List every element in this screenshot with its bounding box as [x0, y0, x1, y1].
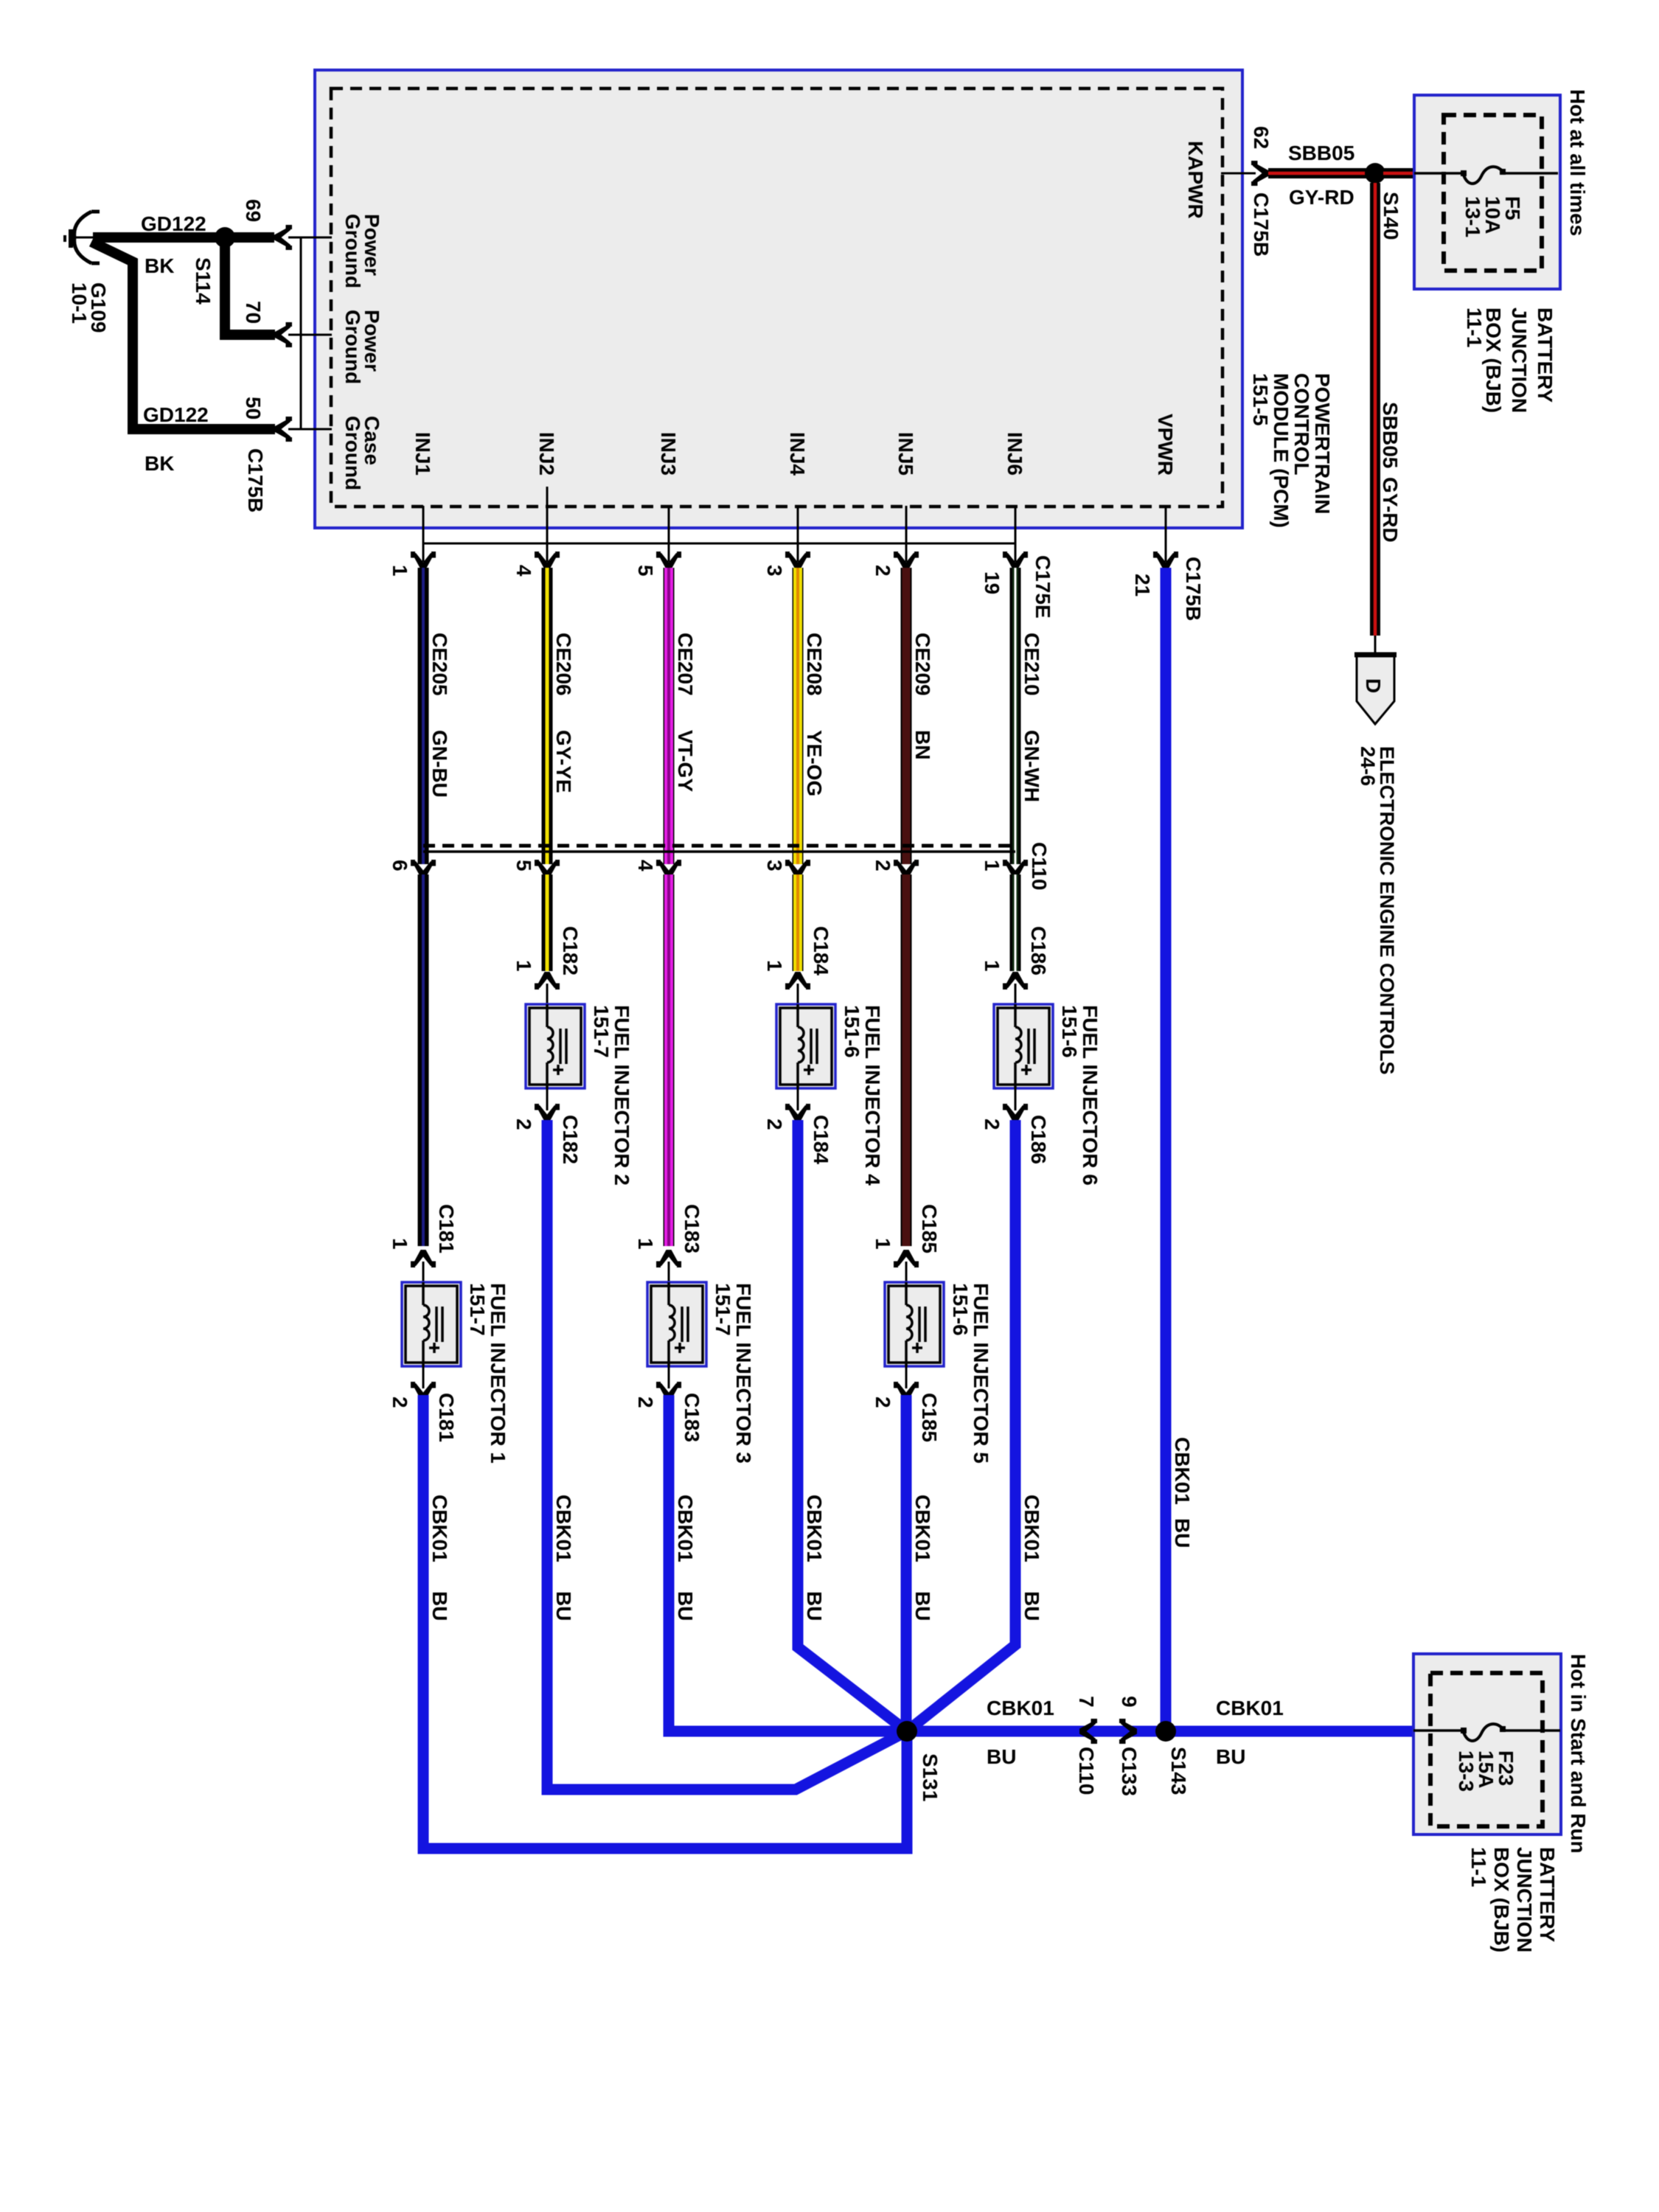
- pin 70 lead: [288, 334, 332, 336]
- label C185 (pin 2): [918, 1393, 941, 1442]
- label SBB05 (vertical): [1379, 402, 1402, 468]
- svg-text:Ground: Ground: [341, 214, 364, 288]
- label CBK01 (wire x=1229): [911, 1495, 934, 1562]
- fuel injector 2 (FUEL INJECTOR 2): [526, 984, 585, 1110]
- svg-text:C175B: C175B: [244, 448, 267, 512]
- INJ4 pin 3 arrow: [785, 552, 810, 569]
- svg-text:1: 1: [634, 1238, 657, 1250]
- svg-text:S131: S131: [919, 1753, 942, 1801]
- INJ3 pin 5 label: [634, 565, 657, 577]
- svg-text:BU: BU: [552, 1591, 575, 1621]
- connector C182 pin 1 arrow: [535, 972, 560, 990]
- svg-text:11-1: 11-1: [1463, 307, 1486, 348]
- fuse F23 15A: [1413, 1724, 1560, 1741]
- wire CE208 YE-OG lower segment: [793, 874, 804, 971]
- label CBK01 (wire x=1082): [803, 1495, 826, 1562]
- svg-text:2: 2: [872, 565, 894, 577]
- label S131: [919, 1753, 942, 1801]
- label GD122 (upper): [141, 212, 206, 235]
- INJ1 pin 1 arrow: [411, 552, 436, 569]
- INJ5 pin lead: [905, 506, 908, 562]
- label C182 (pin 1): [559, 926, 582, 975]
- svg-text:D: D: [1362, 678, 1385, 693]
- svg-text:69: 69: [242, 199, 265, 222]
- svg-text:1: 1: [981, 860, 1004, 872]
- label CE208: [803, 633, 826, 696]
- INJ2 pin lead: [546, 487, 549, 562]
- lead to off-page connector D: [1374, 636, 1377, 655]
- PCM label POWERTRAIN CONTROL MODULE (PCM) 151-5: [1249, 373, 1334, 528]
- svg-text:4: 4: [512, 565, 535, 577]
- VPWR pin lead: [1165, 506, 1167, 562]
- INJ5 pin 2 label: [872, 565, 894, 577]
- C183 pin 2 label: [634, 1397, 657, 1408]
- svg-text:13-1: 13-1: [1461, 196, 1484, 237]
- PCM pin label Case Ground (50): [341, 416, 383, 490]
- svg-text:BU: BU: [1216, 1745, 1245, 1768]
- pin 50 label: [242, 397, 265, 420]
- svg-text:CBK01: CBK01: [552, 1495, 575, 1562]
- pin 70 label: [242, 301, 265, 324]
- C185 pin 1 label: [872, 1238, 894, 1250]
- svg-text:VT-GY: VT-GY: [674, 730, 697, 792]
- svg-text:CBK01: CBK01: [1216, 1697, 1284, 1719]
- INJ6 pin 19 label: [981, 571, 1004, 594]
- svg-text:2: 2: [763, 1119, 786, 1130]
- svg-text:62: 62: [1250, 126, 1273, 149]
- svg-text:INJ1: INJ1: [411, 432, 434, 476]
- svg-text:INJ5: INJ5: [894, 432, 917, 476]
- pin 69 label: [242, 199, 265, 222]
- wire CBK01 BU from fuel injector 4 (C184-2) to splice S131: [798, 1120, 907, 1731]
- label CBK01 (wire x=742): [552, 1495, 575, 1562]
- svg-text:INJ4: INJ4: [786, 432, 809, 476]
- label C184 (pin 1): [810, 926, 832, 975]
- svg-text:C184: C184: [810, 926, 832, 975]
- svg-text:CE208: CE208: [803, 633, 826, 696]
- label CBK01 (S131-C110 segment): [987, 1697, 1054, 1719]
- svg-text:BOX (BJB): BOX (BJB): [1490, 1847, 1513, 1952]
- PCM pin label INJ4: [786, 432, 809, 476]
- label FUEL INJECTOR 4 151-6: [841, 1005, 884, 1186]
- C110 pin 5 label: [512, 860, 535, 872]
- connector line C110: [423, 850, 1015, 853]
- svg-text:5: 5: [634, 565, 657, 577]
- wire CE206 GY-YE lower segment: [542, 874, 553, 971]
- svg-text:C181: C181: [435, 1393, 458, 1442]
- svg-text:151-6: 151-6: [949, 1283, 972, 1336]
- svg-text:CBK01: CBK01: [674, 1495, 697, 1562]
- connector C183 pin 1 arrow: [656, 1250, 681, 1267]
- label BATTERY JUNCTION BOX (BJB) 11-1 (bottom): [1467, 1847, 1559, 1952]
- fuel injector 6 (FUEL INJECTOR 6): [994, 984, 1053, 1110]
- splice S131: [897, 1721, 917, 1742]
- INJ6 pin 19 arrow: [1003, 552, 1028, 569]
- svg-text:70: 70: [242, 301, 265, 324]
- label SBB05 (horizontal): [1288, 142, 1354, 164]
- PCM pin label Power Ground (69): [341, 214, 383, 288]
- label Hot in Start and Run: [1567, 1654, 1590, 1854]
- PCM pin label INJ1: [411, 432, 434, 476]
- connector C182 pin 2 arrow: [535, 1104, 560, 1121]
- svg-text:INJ6: INJ6: [1004, 432, 1026, 476]
- label CE206: [552, 633, 575, 696]
- label BU (S143-BJB segment): [1216, 1745, 1245, 1768]
- wire SBB05 GY-RD horizontal: [1268, 168, 1367, 178]
- connector C185 pin 1 arrow: [894, 1250, 919, 1267]
- ground label G109 10-1: [68, 282, 110, 333]
- pin 62 label: [1250, 126, 1273, 149]
- svg-text:5: 5: [512, 860, 535, 872]
- C110 pin 5 arrow (INJ2): [535, 860, 560, 877]
- harness boundary dashed line at C110: [423, 844, 1015, 848]
- INJ3 pin lead: [668, 506, 670, 562]
- svg-text:CBK01: CBK01: [987, 1697, 1054, 1719]
- svg-text:21: 21: [1131, 574, 1154, 597]
- C110 pin 2 label: [872, 860, 894, 872]
- svg-text:BATTERY: BATTERY: [1536, 1847, 1559, 1942]
- label C133: [1118, 1747, 1141, 1796]
- label BU (wire x=574): [428, 1591, 451, 1621]
- battery junction box 1 (hot at all times): [1414, 95, 1560, 289]
- svg-text:GY-RD: GY-RD: [1379, 477, 1402, 543]
- svg-text:BU: BU: [987, 1745, 1016, 1768]
- C110 pin 2 arrow (INJ5): [894, 860, 919, 877]
- label C186 (pin 1): [1027, 926, 1050, 975]
- svg-text:Hot in Start and Run: Hot in Start and Run: [1567, 1654, 1590, 1854]
- label C183 (pin 1): [681, 1204, 703, 1253]
- connector C184 pin 1 arrow: [785, 972, 810, 990]
- wire CE210 GN-WH lower segment: [1010, 874, 1021, 971]
- svg-text:2: 2: [872, 1397, 894, 1408]
- fuse F5 label: [1461, 196, 1524, 237]
- label C110 (bottom): [1075, 1747, 1098, 1795]
- PCM pin label VPWR: [1154, 414, 1177, 476]
- connector C184 pin 2 arrow: [785, 1104, 810, 1121]
- label GY-YE: [552, 730, 575, 793]
- label BU (wire x=1377): [1020, 1591, 1043, 1621]
- wire CBK01 BU from fuel injector 1 (C181-2) to splice S131: [423, 1395, 907, 1848]
- svg-text:BU: BU: [911, 1591, 934, 1621]
- wire CBK01 BU VPWR to splice S143: [1161, 568, 1172, 1731]
- label Hot at all times: [1566, 89, 1589, 236]
- C186 pin 2 label: [981, 1119, 1004, 1130]
- fuel injector 1 (FUEL INJECTOR 1): [402, 1262, 461, 1388]
- svg-text:BU: BU: [674, 1591, 697, 1621]
- svg-text:C181: C181: [435, 1204, 458, 1253]
- C181 pin 1 label: [389, 1238, 411, 1250]
- C182 pin 2 label: [512, 1119, 535, 1130]
- svg-text:CONTROL: CONTROL: [1290, 373, 1313, 475]
- svg-text:GN-WH: GN-WH: [1020, 730, 1043, 802]
- svg-text:GD122: GD122: [141, 212, 206, 235]
- pin 69 lead: [288, 237, 332, 239]
- PCM pin label INJ5: [894, 432, 917, 476]
- svg-text:C175B: C175B: [1250, 192, 1273, 257]
- wire CE207 VT-GY upper segment: [664, 568, 675, 864]
- off-page connector D: [1354, 654, 1397, 724]
- fuse F23 label: [1455, 1750, 1517, 1792]
- svg-text:BU: BU: [1171, 1518, 1194, 1548]
- connector C181 pin 2 arrow: [411, 1382, 436, 1399]
- INJ6 pin lead: [1015, 506, 1017, 562]
- svg-text:JUNCTION: JUNCTION: [1508, 307, 1531, 413]
- label FUEL INJECTOR 3 151-7: [712, 1283, 755, 1464]
- svg-text:1: 1: [763, 960, 786, 972]
- INJ4 pin lead: [797, 506, 799, 562]
- splice S140: [1365, 163, 1385, 184]
- C110 pin 7 label: [1075, 1696, 1098, 1708]
- label BU (S131-C110 segment): [987, 1745, 1016, 1768]
- svg-text:CBK01: CBK01: [911, 1495, 934, 1562]
- wire CE206 GY-YE upper segment: [542, 568, 553, 864]
- C110 pin 1 arrow (INJ6): [1003, 860, 1028, 877]
- fuel injector 4 (FUEL INJECTOR 4): [776, 984, 835, 1110]
- svg-text:S140: S140: [1380, 192, 1402, 240]
- svg-text:13-3: 13-3: [1455, 1750, 1478, 1792]
- label BATTERY JUNCTION BOX (BJB) 11-1 (top): [1463, 307, 1557, 413]
- svg-text:2: 2: [872, 860, 894, 872]
- svg-text:C110: C110: [1028, 842, 1051, 890]
- wire splice S114 to pin 70: [225, 237, 275, 335]
- INJ1 pin 1 label: [389, 565, 411, 577]
- label CBK01 (S143-BJB segment): [1216, 1697, 1284, 1719]
- svg-text:JUNCTION: JUNCTION: [1513, 1847, 1536, 1952]
- label CBK01 (wire x=907): [674, 1495, 697, 1562]
- svg-text:4: 4: [634, 860, 657, 872]
- svg-text:C183: C183: [681, 1393, 703, 1442]
- label GY-RD (horizontal): [1289, 186, 1354, 209]
- svg-text:SBB05: SBB05: [1288, 142, 1354, 164]
- KAPWR pin 62 arrow: [1251, 161, 1269, 186]
- svg-text:YE-OG: YE-OG: [803, 730, 826, 796]
- svg-text:151-7: 151-7: [590, 1005, 613, 1058]
- svg-text:BU: BU: [803, 1591, 826, 1621]
- fuel injector 5 (FUEL INJECTOR 5): [885, 1262, 944, 1388]
- svg-text:2: 2: [512, 1119, 535, 1130]
- svg-text:6: 6: [389, 860, 411, 872]
- label FUEL INJECTOR 1 151-7: [466, 1283, 509, 1464]
- INJ2 pin 4 label: [512, 565, 535, 577]
- label FUEL INJECTOR 2 151-7: [590, 1005, 633, 1186]
- connector line C175E: [423, 543, 1015, 545]
- label GN-BU: [428, 730, 451, 798]
- wire GD122 BK ground to splice S114: [93, 232, 274, 243]
- PCM pin label INJ2: [535, 432, 558, 476]
- label FUEL INJECTOR 5 151-6: [949, 1283, 992, 1464]
- svg-text:24-6: 24-6: [1357, 746, 1379, 786]
- svg-text:BU: BU: [428, 1591, 451, 1621]
- label GY-RD (vertical): [1379, 477, 1402, 543]
- label CBK01 (wire x=574): [428, 1495, 451, 1562]
- svg-text:C183: C183: [681, 1204, 703, 1253]
- label BN: [911, 730, 934, 759]
- svg-text:10-1: 10-1: [68, 282, 91, 324]
- svg-text:151-6: 151-6: [1058, 1005, 1081, 1058]
- svg-text:CBK01: CBK01: [1020, 1495, 1043, 1562]
- svg-text:KAPWR: KAPWR: [1184, 141, 1207, 219]
- svg-text:BN: BN: [911, 730, 934, 759]
- label BU (wire x=907): [674, 1591, 697, 1621]
- svg-text:Ground: Ground: [341, 310, 364, 384]
- wire S140 to battery junction box: [1383, 168, 1414, 178]
- svg-text:11-1: 11-1: [1467, 1847, 1490, 1888]
- svg-text:BATTERY: BATTERY: [1534, 307, 1557, 403]
- C186 pin 1 label: [981, 960, 1004, 972]
- svg-text:C182: C182: [559, 926, 582, 975]
- label BU (wire x=742): [552, 1591, 575, 1621]
- svg-text:1: 1: [512, 960, 535, 972]
- svg-text:BK: BK: [145, 254, 174, 277]
- C110 pin 6 arrow (INJ1): [411, 860, 436, 877]
- C110 pin 7 arrow (bottom): [1079, 1719, 1097, 1744]
- connector C185 pin 2 arrow: [894, 1382, 919, 1399]
- C133 pin 9 arrow: [1119, 1719, 1137, 1744]
- svg-text:CBK01: CBK01: [1171, 1437, 1194, 1505]
- PCM pin label INJ3: [657, 432, 680, 476]
- C133 pin 9 label: [1118, 1696, 1141, 1708]
- label S140: [1380, 192, 1402, 240]
- pin 50 lead: [288, 428, 332, 431]
- label ELECTRONIC ENGINE CONTROLS 24-6: [1357, 746, 1398, 1075]
- label C175E: [1032, 555, 1054, 619]
- svg-text:FUEL INJECTOR 2: FUEL INJECTOR 2: [611, 1005, 633, 1186]
- pin 70 arrow: [274, 322, 292, 347]
- svg-text:MODULE (PCM): MODULE (PCM): [1270, 373, 1293, 528]
- splice S114: [215, 227, 235, 248]
- label CE207: [674, 633, 697, 696]
- label VT-GY: [674, 730, 697, 792]
- svg-text:C133: C133: [1118, 1747, 1141, 1796]
- label CE209: [911, 633, 934, 696]
- wire CBK01 BU from fuel injector 3 (C183-2) to splice S131: [669, 1395, 907, 1731]
- label C182 (pin 2): [559, 1115, 582, 1164]
- svg-text:GN-BU: GN-BU: [428, 730, 451, 798]
- svg-text:FUEL INJECTOR 6: FUEL INJECTOR 6: [1079, 1005, 1102, 1186]
- label CBK01 (VPWR wire): [1171, 1437, 1194, 1505]
- connector C183 pin 2 arrow: [656, 1382, 681, 1399]
- label C181 (pin 2): [435, 1393, 458, 1442]
- wire CE205 GN-BU lower segment: [418, 874, 429, 1246]
- svg-text:S114: S114: [192, 257, 215, 305]
- label BK (lower): [145, 452, 174, 475]
- svg-text:GY-RD: GY-RD: [1289, 186, 1354, 209]
- pin 69 arrow: [274, 225, 292, 250]
- INJ4 pin 3 label: [763, 565, 786, 577]
- svg-text:50: 50: [242, 397, 265, 420]
- svg-text:2: 2: [634, 1397, 657, 1408]
- svg-text:INJ2: INJ2: [535, 432, 558, 476]
- svg-text:C185: C185: [918, 1393, 941, 1442]
- svg-text:CE207: CE207: [674, 633, 697, 696]
- svg-text:1: 1: [981, 960, 1004, 972]
- svg-text:C185: C185: [918, 1204, 941, 1253]
- svg-text:FUEL INJECTOR 5: FUEL INJECTOR 5: [970, 1283, 992, 1464]
- svg-text:SBB05: SBB05: [1379, 402, 1402, 468]
- label C185 (pin 1): [918, 1204, 941, 1253]
- label FUEL INJECTOR 6 151-6: [1058, 1005, 1102, 1186]
- svg-text:151-6: 151-6: [841, 1005, 863, 1058]
- wire CBK01 BU from fuel injector 2 (C182-2) to splice S131: [547, 1120, 907, 1790]
- INJ3 pin 5 arrow: [656, 552, 681, 569]
- svg-text:1: 1: [872, 1238, 894, 1250]
- label CE205: [428, 633, 451, 696]
- svg-text:S143: S143: [1167, 1747, 1190, 1795]
- svg-text:151-5: 151-5: [1249, 373, 1272, 426]
- svg-text:2: 2: [981, 1119, 1004, 1130]
- C184 pin 2 label: [763, 1119, 786, 1130]
- svg-text:C175E: C175E: [1032, 555, 1054, 619]
- connector line C175B (grounds): [300, 237, 302, 429]
- svg-text:Ground: Ground: [341, 416, 364, 490]
- label C110: [1028, 842, 1051, 890]
- svg-text:19: 19: [981, 571, 1004, 594]
- svg-text:FUEL INJECTOR 4: FUEL INJECTOR 4: [861, 1005, 884, 1186]
- label GN-WH: [1020, 730, 1043, 802]
- wire GD122 BK ground to pin 50 (case ground): [91, 242, 275, 429]
- label C183 (pin 2): [681, 1393, 703, 1442]
- wire CE209 BN lower segment: [901, 874, 912, 1246]
- label C175B (KAPWR): [1250, 192, 1273, 257]
- svg-text:C182: C182: [559, 1115, 582, 1164]
- label YE-OG: [803, 730, 826, 796]
- wire CBK01 BU from fuel injector 6 (C186-2) to splice S131: [907, 1120, 1015, 1731]
- label S143: [1167, 1747, 1190, 1795]
- svg-text:C186: C186: [1027, 1115, 1050, 1164]
- PCM module box (POWERTRAIN CONTROL MODULE): [315, 70, 1242, 528]
- KAPWR pin lead: [1221, 173, 1256, 175]
- svg-text:CE209: CE209: [911, 633, 934, 696]
- svg-text:CE210: CE210: [1020, 633, 1043, 696]
- fuel injector 3 (FUEL INJECTOR 3): [647, 1262, 706, 1388]
- svg-text:C110: C110: [1075, 1747, 1098, 1795]
- wire CBK01 BU from fuel injector 5 (C185-2) to splice S131: [901, 1395, 912, 1731]
- C110 pin 3 label: [763, 860, 786, 872]
- C184 pin 1 label: [763, 960, 786, 972]
- svg-text:151-7: 151-7: [466, 1283, 489, 1336]
- svg-text:GY-YE: GY-YE: [552, 730, 575, 793]
- label CE210: [1020, 633, 1043, 696]
- C181 pin 2 label: [389, 1397, 411, 1408]
- svg-text:CBK01: CBK01: [428, 1495, 451, 1562]
- svg-text:VPWR: VPWR: [1154, 414, 1177, 476]
- PCM pin label KAPWR: [1184, 141, 1207, 219]
- PCM pin label INJ6: [1004, 432, 1026, 476]
- svg-text:C175B: C175B: [1182, 557, 1205, 621]
- fuse F5 10A: [1414, 167, 1558, 184]
- wire CBK01 BU splice S131 to battery junction box 2: [907, 1726, 1413, 1737]
- label GD122 (lower): [143, 403, 209, 426]
- svg-text:POWERTRAIN: POWERTRAIN: [1311, 373, 1334, 514]
- C110 pin 1 label: [981, 860, 1004, 872]
- label S114: [192, 257, 215, 305]
- INJ1 pin lead: [422, 506, 425, 562]
- svg-text:FUEL INJECTOR 3: FUEL INJECTOR 3: [732, 1283, 755, 1464]
- C110 pin 6 label: [389, 860, 411, 872]
- svg-text:FUEL INJECTOR 1: FUEL INJECTOR 1: [487, 1283, 509, 1464]
- connector C186 pin 2 arrow: [1003, 1104, 1028, 1121]
- svg-text:CE206: CE206: [552, 633, 575, 696]
- svg-text:C186: C186: [1027, 926, 1050, 975]
- svg-text:CBK01: CBK01: [803, 1495, 826, 1562]
- C110 pin 3 arrow (INJ4): [785, 860, 810, 877]
- svg-text:CE205: CE205: [428, 633, 451, 696]
- svg-text:2: 2: [389, 1397, 411, 1408]
- svg-text:1: 1: [389, 565, 411, 577]
- wire CE210 GN-WH upper segment: [1010, 568, 1021, 864]
- wire CE209 BN upper segment: [901, 568, 912, 864]
- label CBK01 (wire x=1377): [1020, 1495, 1043, 1562]
